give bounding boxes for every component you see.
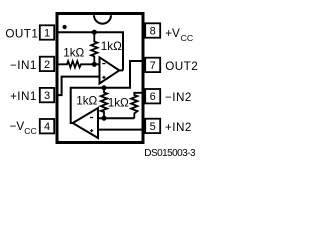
label +VCC (pin 8) <box>165 27 193 43</box>
svg-text:4: 4 <box>44 121 50 133</box>
svg-text:OUT2: OUT2 <box>165 60 198 73</box>
svg-text:CC: CC <box>181 33 194 43</box>
svg-text:+IN1: +IN1 <box>10 90 37 103</box>
node: junction of R3 bottom on inverting rail <box>101 116 106 121</box>
resistor R4 1kOhm (input, amp B) with wire from pin 6 <box>131 93 144 118</box>
resistor R3 1kOhm (feedback, amp B) <box>101 88 107 118</box>
svg-text:1kΩ: 1kΩ <box>76 95 97 108</box>
svg-text:2: 2 <box>44 59 50 71</box>
pin 5 box <box>145 119 160 133</box>
svg-text:5: 5 <box>150 121 156 133</box>
resistor R1 1kOhm (feedback, amp A) <box>91 32 97 64</box>
svg-text:1kΩ: 1kΩ <box>108 96 129 109</box>
pin 1 box <box>40 25 54 39</box>
svg-text:1: 1 <box>44 28 50 40</box>
notch (pin-1 end indicator) <box>94 15 111 23</box>
pin 8 box <box>145 23 160 37</box>
op-amp B (bottom, output to pin 7) <box>73 108 98 138</box>
svg-text:3: 3 <box>44 90 50 102</box>
pin 6 box <box>145 89 160 103</box>
wire: pin 3 (+IN1) to amp A non-inverting input <box>58 77 100 96</box>
pin 4 box <box>40 119 54 133</box>
node: junction of R1 top on OUT1 wire <box>92 30 97 35</box>
svg-text:6: 6 <box>150 91 156 103</box>
node: junction of R1 bottom / R2 / amp A inverting input <box>92 62 97 67</box>
svg-text:−IN1: −IN1 <box>10 59 37 72</box>
pin-1 marker dot <box>63 25 67 29</box>
pin 7 box <box>145 58 160 72</box>
wire: amp B non-inverting input to pin 5 (+IN2) <box>98 129 145 131</box>
wire: amp B inverting input rail <box>98 117 134 119</box>
wire: amp B output up and over to pin 7 (OUT2) <box>71 61 145 123</box>
op-amp A (top, output to pin 1) <box>100 57 120 83</box>
resistor R2 1kOhm (input, amp A) with wire from pin 2 to inverting input <box>58 61 100 67</box>
svg-text:OUT1: OUT1 <box>5 28 38 41</box>
svg-text:7: 7 <box>150 60 156 72</box>
svg-text:+V: +V <box>165 27 180 40</box>
svg-text:+IN2: +IN2 <box>165 121 192 134</box>
pin 2 box <box>40 57 54 71</box>
wire: amp A output to feedback vertical <box>119 69 123 71</box>
pin 3 box <box>40 88 54 102</box>
IC body U1 (8-pin DIP outline) <box>57 14 143 143</box>
svg-text:−IN2: −IN2 <box>165 91 192 104</box>
label -VCC (pin 4) <box>10 120 37 136</box>
wire: pin 1 (OUT1) to feedback node and amp A output <box>58 32 123 70</box>
svg-text:CC: CC <box>24 126 37 136</box>
node: junction of R3 top on OUT2 rail <box>101 85 106 90</box>
svg-text:1kΩ: 1kΩ <box>63 47 84 60</box>
svg-text:1kΩ: 1kΩ <box>101 40 122 53</box>
svg-text:DS015003-3: DS015003-3 <box>144 148 196 159</box>
svg-text:8: 8 <box>150 26 156 38</box>
svg-text:−V: −V <box>10 120 25 133</box>
